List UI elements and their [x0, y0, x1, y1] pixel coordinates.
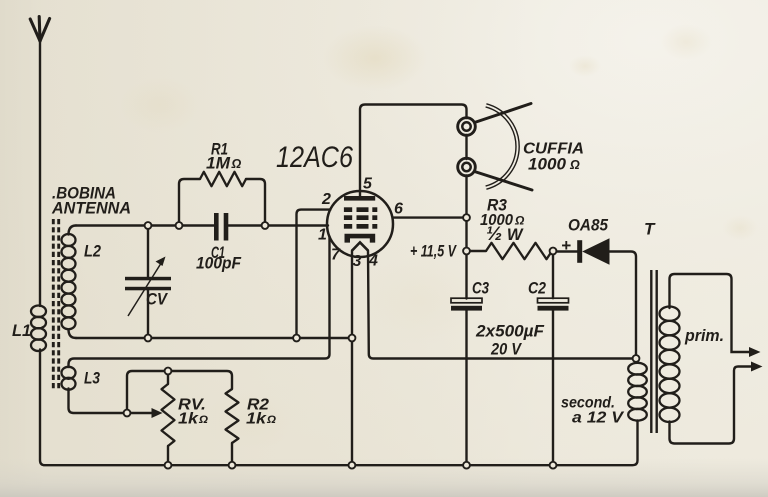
wire pin 2 to mid rail	[297, 210, 331, 338]
headphone cord bottom	[475, 172, 533, 191]
svg-text:Ω: Ω	[231, 157, 242, 171]
svg-text:1000: 1000	[528, 156, 567, 174]
coil L1	[31, 306, 46, 352]
wire L2 bottom rail to pin3 junction	[76, 337, 352, 339]
svg-text:4: 4	[368, 253, 378, 270]
svg-text:Ω: Ω	[198, 414, 208, 426]
antenna	[30, 17, 49, 42]
node pin2 on mid rail	[293, 335, 300, 342]
wire pin 4 down and right to secondary top	[368, 251, 633, 359]
output arrow 2 head	[751, 362, 763, 372]
output arrow 1 head	[749, 347, 761, 357]
node pin3 on mid rail	[349, 335, 356, 342]
wire L1 bottom to bottom rail across to transformer secondary	[40, 350, 638, 466]
potentiometer RV 1k	[167, 371, 169, 384]
tube cathode bracket	[345, 234, 376, 243]
svg-text:20 V: 20 V	[490, 341, 523, 359]
wire primary top to output arrow 1	[670, 274, 752, 352]
transformer secondary winding	[628, 363, 647, 421]
coil L2	[62, 234, 76, 329]
wire pin 6 to headphone line	[393, 216, 464, 218]
resistor R1 1M parallel loop	[179, 179, 200, 226]
headphone cord top	[475, 104, 532, 123]
wire L2 top to C1 left plate	[76, 224, 214, 226]
resistor R2 1k	[226, 389, 239, 443]
svg-text:+ 11,5 V: + 11,5 V	[410, 243, 458, 261]
node R3 left +11,5V	[463, 248, 470, 255]
headphone jack terminal bottom	[458, 158, 476, 176]
wire CV bottom stem	[147, 290, 149, 338]
svg-text:1k: 1k	[178, 411, 200, 428]
capacitor C1 100pF	[214, 213, 219, 241]
svg-text:12AC6: 12AC6	[276, 141, 354, 174]
wire C1 right plate to tube pin 1	[229, 224, 329, 226]
svg-text:ANTENNA: ANTENNA	[51, 200, 131, 218]
svg-text:+: +	[561, 236, 571, 255]
svg-text:prim.: prim.	[684, 326, 724, 345]
wire between jacks and jack2 down to C3	[465, 135, 467, 159]
node R3 right diode anode	[550, 248, 557, 255]
wire primary bottom to output arrow 2	[670, 367, 754, 444]
variable capacitor CV plates	[125, 277, 171, 281]
tube heater caret	[352, 242, 368, 250]
svg-text:L2: L2	[84, 242, 101, 261]
svg-text:½ W: ½ W	[486, 223, 524, 245]
wire junction up to RV/R2 top rail	[127, 371, 232, 413]
node CV bottom on mid rail	[145, 335, 152, 342]
node L3 junction	[124, 410, 131, 417]
node pin3 bottom rail	[349, 462, 356, 469]
tube plate	[344, 196, 375, 201]
svg-text:1: 1	[318, 227, 327, 244]
svg-text:C2: C2	[528, 280, 546, 298]
wire CV top stem	[147, 226, 149, 277]
transformer core	[651, 270, 656, 433]
svg-text:100pF: 100pF	[196, 255, 242, 273]
resistor R3	[467, 250, 487, 252]
svg-text:L3: L3	[84, 369, 100, 388]
node R2 bottom rail	[229, 462, 236, 469]
node R1 right on grid rail	[262, 222, 269, 229]
tube 12AC6 envelope	[327, 191, 393, 257]
wire L2 bottom lead	[69, 330, 77, 339]
CV arrow	[128, 263, 162, 317]
svg-text:6: 6	[394, 201, 403, 218]
svg-text:L1: L1	[12, 321, 31, 340]
svg-text:Ω: Ω	[569, 158, 580, 172]
svg-text:5: 5	[363, 176, 373, 193]
wire R3 node to diode	[552, 250, 578, 252]
svg-text:3: 3	[353, 253, 362, 270]
node C2 bottom rail	[550, 462, 557, 469]
svg-text:a 12 V: a 12 V	[572, 410, 625, 427]
transformer primary winding	[660, 307, 680, 422]
svg-text:Ω: Ω	[266, 414, 276, 426]
node pin6 phone line	[463, 214, 470, 221]
node RV top	[165, 368, 172, 375]
svg-text:7: 7	[331, 247, 341, 264]
svg-text:T: T	[644, 220, 656, 239]
node R1 left on grid rail	[176, 222, 183, 229]
svg-text:1M: 1M	[206, 155, 231, 173]
diode OA85	[577, 240, 582, 263]
svg-text:C3: C3	[472, 280, 489, 298]
capacitor C2	[552, 251, 554, 298]
node C3 bottom rail	[463, 462, 470, 469]
node RV bottom rail	[165, 462, 172, 469]
svg-text:1k: 1k	[246, 411, 268, 428]
wire L2 top lead	[69, 226, 77, 235]
wire antenna lead down to L1	[39, 40, 41, 306]
node secondary top	[633, 355, 640, 362]
capacitor C3	[451, 298, 482, 303]
tube grids	[344, 207, 377, 228]
core dashed lines between L1 and L2	[53, 219, 58, 390]
headphone jack terminal top	[458, 118, 476, 136]
headphone double arc	[486, 104, 520, 189]
svg-text:2x500µF: 2x500µF	[475, 323, 545, 341]
wire tube pin 5 riser and top run to phone jack	[360, 105, 467, 198]
node CV top on grid rail	[145, 222, 152, 229]
wire pin 7 down and left to L3	[69, 237, 330, 368]
wire L3 bottom lead to junction	[69, 389, 128, 414]
svg-text:2: 2	[321, 191, 331, 208]
svg-text:CV: CV	[146, 290, 168, 309]
wire diode to secondary top	[610, 252, 637, 357]
coil L3	[62, 367, 76, 390]
svg-text:OA85: OA85	[568, 217, 609, 235]
RV wiper arrow	[130, 412, 153, 414]
wire pin 3 down to bottom rail	[351, 251, 353, 466]
